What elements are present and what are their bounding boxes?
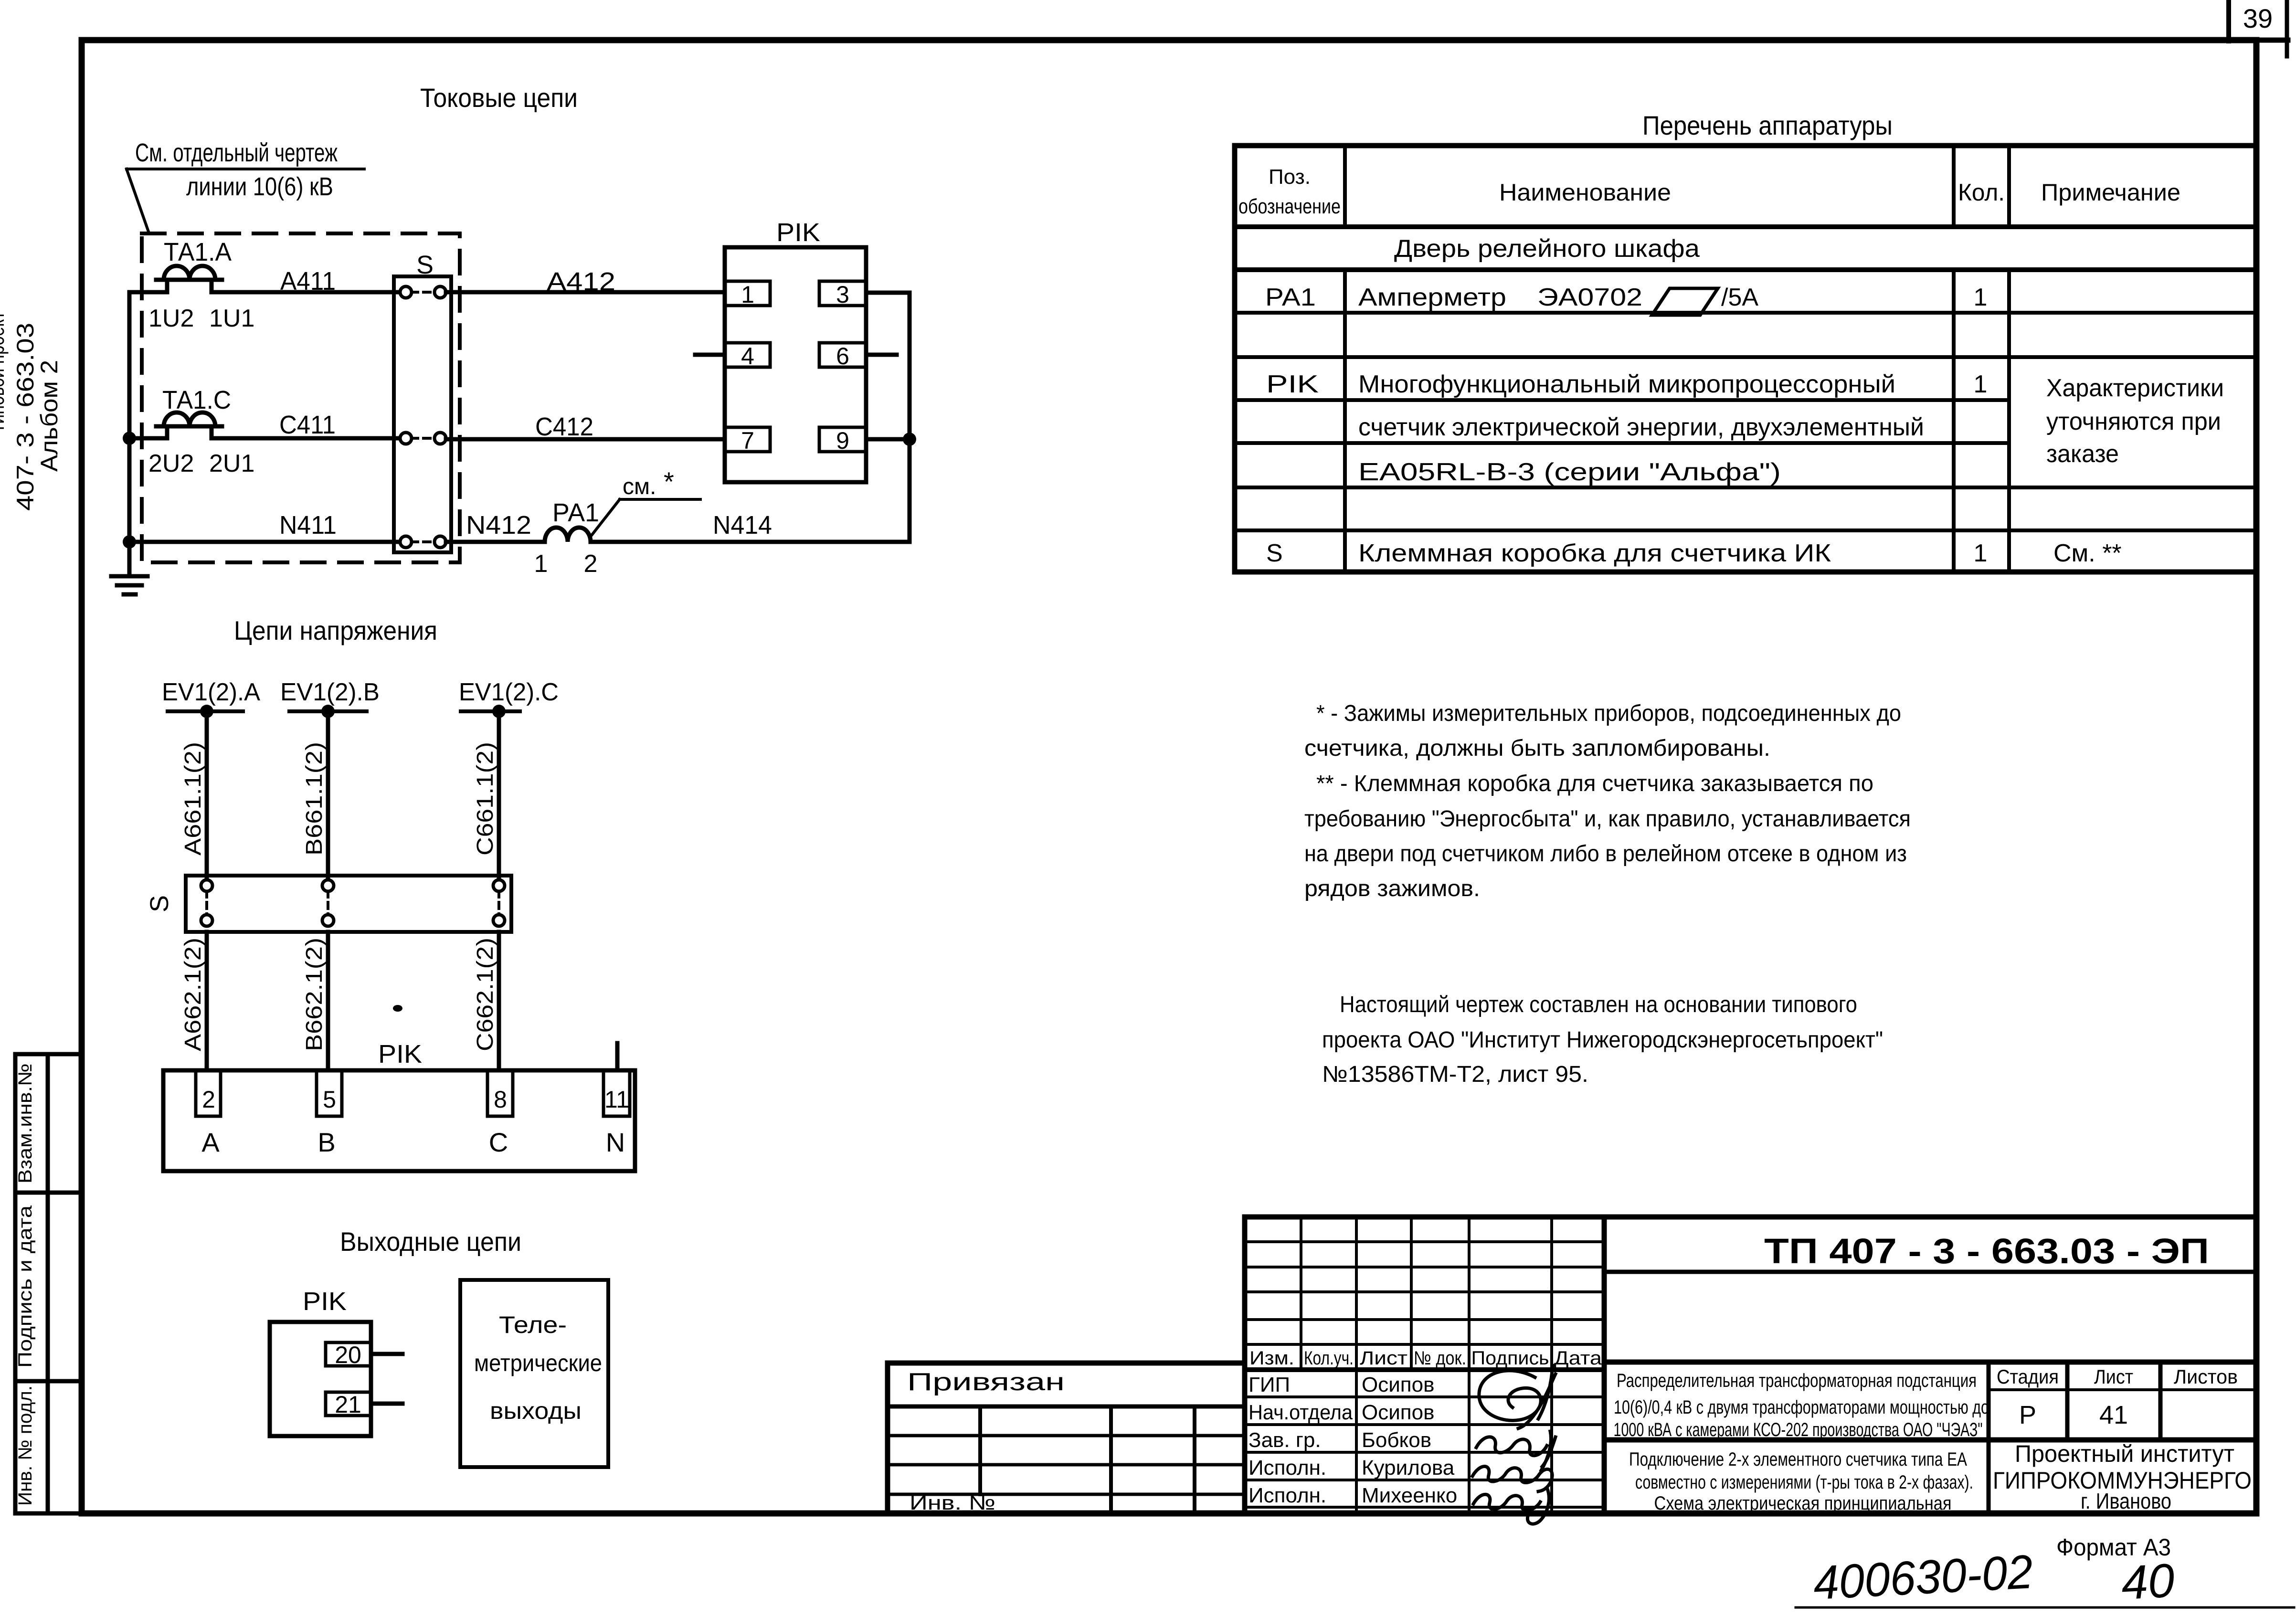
svg-text:ГИП: ГИП xyxy=(1249,1373,1290,1396)
meter PIK box (output circuits) xyxy=(270,1322,371,1436)
svg-text:11: 11 xyxy=(604,1086,629,1113)
svg-text:обозначение: обозначение xyxy=(1238,195,1341,218)
svg-text:EV1(2).A: EV1(2).A xyxy=(162,678,260,706)
revision table blank rows xyxy=(1245,1240,1604,1243)
svg-text:заказе: заказе xyxy=(2046,440,2119,468)
pin 20 stub wire xyxy=(371,1352,402,1356)
ammeter scale placeholder (parallelogram) xyxy=(1652,288,1718,315)
svg-text:С412: С412 xyxy=(535,412,593,441)
svg-text:Подпись: Подпись xyxy=(1471,1348,1549,1369)
svg-text:Настоящий чертеж составлен на: Настоящий чертеж составлен на основании … xyxy=(1340,992,1857,1017)
node: pin9/return bus junction xyxy=(903,433,916,446)
svg-text:7: 7 xyxy=(741,427,754,454)
svg-text:PIK: PIK xyxy=(378,1040,422,1068)
terminal box S (current circuits) xyxy=(394,276,451,552)
wire from pin 3 to return bus xyxy=(866,291,910,295)
svg-text:Примечание: Примечание xyxy=(2041,179,2180,206)
pin 6 stub wire xyxy=(866,353,897,357)
PIK pin 1 xyxy=(725,281,770,306)
PIK pin 4 xyxy=(725,343,770,367)
svg-text:Токовые цепи: Токовые цепи xyxy=(420,83,578,113)
svg-text:2U2: 2U2 xyxy=(148,450,194,477)
svg-text:Дверь релейного шкафа: Дверь релейного шкафа xyxy=(1394,235,1700,263)
svg-text:А411: А411 xyxy=(280,267,336,296)
svg-text:Стадия: Стадия xyxy=(1997,1365,2059,1388)
svg-text:9: 9 xyxy=(836,427,849,454)
wire A411 xyxy=(129,290,167,295)
svg-text:PIK: PIK xyxy=(776,218,820,247)
svg-text:1U1: 1U1 xyxy=(209,305,254,332)
svg-text:Цепи напряжения: Цепи напряжения xyxy=(234,615,437,645)
svg-text:линии 10(6) кВ: линии 10(6) кВ xyxy=(186,172,333,201)
wire C661.1(2) xyxy=(497,711,501,880)
svg-text:40: 40 xyxy=(2120,1554,2176,1610)
svg-text:EA05RL-B-3 (серии "Альфа"): EA05RL-B-3 (серии "Альфа") xyxy=(1358,458,1781,486)
title block outer lines xyxy=(1245,1215,2256,1220)
staff rows xyxy=(1245,1395,1604,1398)
svg-text:А662.1(2): А662.1(2) xyxy=(180,938,206,1051)
wire B662.1(2) xyxy=(326,932,330,1070)
S terminals row A: circles and dashed link xyxy=(400,286,446,298)
svg-text:Кол.уч.: Кол.уч. xyxy=(1304,1348,1354,1369)
svg-text:N: N xyxy=(606,1127,625,1157)
svg-text:Подключение 2-х элементного сч: Подключение 2-х элементного счетчика тип… xyxy=(1629,1449,1967,1470)
svg-text:А: А xyxy=(201,1127,220,1157)
svg-text:РА1: РА1 xyxy=(1265,284,1316,311)
svg-text:см.: см. xyxy=(623,474,656,499)
svg-text:ЭА0702: ЭА0702 xyxy=(1537,284,1642,311)
svg-text:1: 1 xyxy=(1974,539,1988,567)
svg-text:№ док.: № док. xyxy=(1414,1348,1466,1369)
PIK pin 8 xyxy=(487,1070,513,1116)
PIK pin 11 xyxy=(603,1070,630,1116)
wire C412 xyxy=(446,437,725,442)
svg-text:Курилова: Курилова xyxy=(1362,1456,1455,1480)
wire A662.1(2) xyxy=(205,932,209,1070)
svg-text:PIK: PIK xyxy=(1266,370,1319,398)
pin 11 stub wire xyxy=(615,1043,620,1070)
svg-text:6: 6 xyxy=(836,343,849,370)
wire N411 xyxy=(129,540,400,544)
svg-text:*: * xyxy=(664,466,674,497)
svg-text:Выходные цепи: Выходные цепи xyxy=(340,1226,521,1257)
meter PIK box (voltage circuits) xyxy=(163,1070,635,1171)
wire from pin 9 to return bus xyxy=(866,437,910,442)
svg-text:С662.1(2): С662.1(2) xyxy=(473,938,498,1051)
svg-text:Михеенко: Михеенко xyxy=(1362,1484,1457,1507)
svg-text:5: 5 xyxy=(323,1086,336,1113)
S voltage terminals column A xyxy=(201,880,212,926)
node B tick xyxy=(289,709,367,713)
svg-text:Поз.: Поз. xyxy=(1269,165,1311,189)
current transformer TA1.C xyxy=(156,412,222,438)
pin 21 stub wire xyxy=(371,1402,402,1406)
svg-text:S: S xyxy=(1266,539,1283,567)
svg-text:39: 39 xyxy=(2243,3,2273,33)
svg-text:В662.1(2): В662.1(2) xyxy=(302,938,327,1051)
svg-text:Типовой проект: Типовой проект xyxy=(0,312,9,433)
svg-text:уточняются при: уточняются при xyxy=(2046,408,2221,435)
svg-text:4: 4 xyxy=(741,343,754,370)
revision header bottom xyxy=(1245,1367,1604,1372)
stray ink dot xyxy=(393,1005,402,1012)
svg-text:Перечень аппаратуры: Перечень аппаратуры xyxy=(1642,110,1893,140)
signature scribble (Осипов) xyxy=(1479,1365,1555,1428)
svg-text:Осипов: Осипов xyxy=(1362,1401,1434,1424)
svg-text:S: S xyxy=(416,251,434,279)
revision table verticals (upper part) xyxy=(1300,1217,1302,1370)
svg-text:N414: N414 xyxy=(713,511,772,539)
svg-text:Подпись и дата: Подпись и дата xyxy=(15,1205,36,1368)
PIK pin 3 xyxy=(819,281,866,306)
svg-text:8: 8 xyxy=(494,1086,507,1113)
svg-text:PIK: PIK xyxy=(303,1287,347,1316)
svg-text:1000 кВА с камерами КСО-202 пр: 1000 кВА с камерами КСО-202 производства… xyxy=(1614,1419,1983,1440)
svg-text:Листов: Листов xyxy=(2174,1365,2238,1388)
svg-text:N412: N412 xyxy=(466,511,531,539)
wire A661.1(2) xyxy=(205,711,209,880)
svg-text:счетчика, должны быть запломби: счетчика, должны быть запломбированы. xyxy=(1304,736,1770,761)
svg-text:Привязан: Привязан xyxy=(907,1368,1065,1396)
svg-text:EV1(2).B: EV1(2).B xyxy=(280,678,380,706)
svg-text:проекта ОАО "Институт Нижегоро: проекта ОАО "Институт Нижегородскэнергос… xyxy=(1322,1027,1883,1053)
svg-text:Лист: Лист xyxy=(1360,1348,1407,1369)
svg-text:счетчик электрической энергии,: счетчик электрической энергии, двухэлеме… xyxy=(1358,413,1924,441)
svg-text:См. **: См. ** xyxy=(2053,539,2122,567)
svg-text:Характеристики: Характеристики xyxy=(2046,374,2224,402)
node C tick xyxy=(461,709,520,713)
ground symbol xyxy=(111,542,148,594)
node: bus to C-phase junction xyxy=(123,432,136,445)
PIK pin 20 xyxy=(326,1342,371,1366)
svg-text:N411: N411 xyxy=(279,511,337,539)
svg-text:Дата: Дата xyxy=(1554,1348,1602,1369)
svg-text:Исполн.: Исполн. xyxy=(1249,1484,1326,1507)
PIK pin 5 xyxy=(317,1070,342,1116)
PIK pin 2 xyxy=(196,1070,221,1116)
table grid xyxy=(1235,146,2256,572)
svg-text:20: 20 xyxy=(335,1342,361,1368)
svg-text:Инв. №: Инв. № xyxy=(910,1491,995,1514)
PIK pin 21 xyxy=(326,1392,371,1416)
svg-text:Наименование: Наименование xyxy=(1499,179,1671,206)
svg-text:А412: А412 xyxy=(547,267,615,296)
svg-text:Взам.инв.№: Взам.инв.№ xyxy=(15,1063,36,1184)
node A tick xyxy=(168,709,243,713)
svg-text:№13586ТМ-Т2, лист 95.: №13586ТМ-Т2, лист 95. xyxy=(1322,1062,1588,1087)
svg-text:1U2: 1U2 xyxy=(148,305,194,332)
svg-text:ТП 407 - 3 - 663.03 - ЭП: ТП 407 - 3 - 663.03 - ЭП xyxy=(1764,1231,2209,1271)
svg-text:2U1: 2U1 xyxy=(209,450,254,477)
PIK pin 9 xyxy=(819,427,866,452)
svg-text:Зав. гр.: Зав. гр. xyxy=(1249,1428,1321,1452)
svg-text:Альбом 2: Альбом 2 xyxy=(36,360,63,472)
svg-text:Изм.: Изм. xyxy=(1249,1348,1294,1369)
svg-text:Клеммная коробка для счетчика: Клеммная коробка для счетчика ИК xyxy=(1358,539,1831,567)
svg-text:EV1(2).C: EV1(2).C xyxy=(459,678,559,706)
ammeter PA1 coil xyxy=(545,528,591,542)
wire N414 xyxy=(591,540,910,544)
svg-text:метрические: метрические xyxy=(474,1350,602,1376)
svg-text:Амперметр: Амперметр xyxy=(1358,284,1506,311)
PIK pin 6 xyxy=(819,343,866,367)
signature scribble (Михеенко) xyxy=(1473,1488,1549,1524)
svg-text:Осипов: Осипов xyxy=(1362,1373,1434,1396)
svg-text:Многофункциональный микропроце: Многофункциональный микропроцессорный xyxy=(1358,370,1895,398)
svg-text:выходы: выходы xyxy=(490,1397,582,1424)
svg-text:21: 21 xyxy=(335,1391,361,1418)
svg-text:Исполн.: Исполн. xyxy=(1249,1456,1326,1480)
wire N412 xyxy=(446,540,545,544)
sheet number box (top right, "39") xyxy=(2229,0,2288,56)
S terminals row C xyxy=(400,433,446,444)
left phase bus wire (vertical) xyxy=(127,292,132,542)
dashed boundary box (10(6) kV line zone) xyxy=(142,233,460,562)
S voltage terminals column B xyxy=(322,880,334,926)
svg-text:Схема электрическая принципиал: Схема электрическая принципиальная xyxy=(1654,1493,1952,1514)
svg-text:1: 1 xyxy=(1974,370,1988,398)
line under drawing code xyxy=(1604,1270,2256,1274)
S voltage terminals column C xyxy=(493,880,505,926)
terminal box S (voltage circuits) xyxy=(186,876,511,932)
telemetry outputs box xyxy=(460,1280,608,1467)
svg-text:См. отдельный чертеж: См. отдельный чертеж xyxy=(135,138,338,167)
wire A412 xyxy=(446,290,725,295)
svg-text:407- 3 - 663.03: 407- 3 - 663.03 xyxy=(12,323,39,511)
svg-text:РА1: РА1 xyxy=(552,498,599,527)
svg-text:Кол.: Кол. xyxy=(1958,179,2005,206)
svg-text:3: 3 xyxy=(836,281,849,308)
svg-text:1: 1 xyxy=(741,281,754,308)
svg-text:г. Иваново: г. Иваново xyxy=(2081,1489,2171,1513)
svg-text:совместно с измерениями (т-ры: совместно с измерениями (т-ры тока в 2-х… xyxy=(1635,1472,1973,1493)
svg-text:С661.1(2): С661.1(2) xyxy=(473,742,498,856)
svg-text:С411: С411 xyxy=(279,411,336,439)
svg-text:Р: Р xyxy=(2019,1401,2036,1429)
note underline xyxy=(127,168,364,170)
handwriting underline xyxy=(1796,1606,2294,1609)
svg-text:2: 2 xyxy=(202,1086,215,1113)
wire B661.1(2) xyxy=(326,711,330,880)
signature scribble (Курилова) xyxy=(1472,1467,1552,1492)
svg-text:ТА1.А: ТА1.А xyxy=(164,238,232,266)
pin 4 stub wire xyxy=(695,353,725,357)
svg-text:ТА1.С: ТА1.С xyxy=(162,386,231,414)
svg-text:1: 1 xyxy=(1974,284,1988,311)
svg-text:Лист: Лист xyxy=(2094,1365,2133,1388)
svg-text:2: 2 xyxy=(584,550,598,578)
svg-text:С: С xyxy=(489,1127,508,1157)
note leader line xyxy=(127,169,149,233)
S terminals row N xyxy=(400,536,446,548)
svg-text:* - Зажимы измерительных прибо: * - Зажимы измерительных приборов, подсо… xyxy=(1316,701,1901,726)
binder block (Привязан) xyxy=(888,1361,1245,1366)
svg-text:/5А: /5А xyxy=(1721,284,1758,311)
svg-text:1: 1 xyxy=(534,550,548,578)
meter PIK box (current circuits) xyxy=(725,247,866,482)
wire C662.1(2) xyxy=(497,932,501,1070)
return bus wire (vertical) xyxy=(908,293,912,542)
svg-text:В: В xyxy=(317,1127,335,1157)
staff verticals xyxy=(1355,1370,1358,1513)
svg-text:на двери под счетчиком либо в: на двери под счетчиком либо в релейном о… xyxy=(1304,841,1907,867)
svg-text:Распределительная трансформато: Распределительная трансформаторная подст… xyxy=(1617,1370,1977,1391)
svg-text:А661.1(2): А661.1(2) xyxy=(180,742,206,856)
svg-text:41: 41 xyxy=(2099,1401,2128,1429)
svg-text:10(6)/0,4 кВ с двумя трансформ: 10(6)/0,4 кВ с двумя трансформаторами мо… xyxy=(1614,1397,1989,1418)
svg-text:В661.1(2): В661.1(2) xyxy=(302,742,327,856)
svg-text:Инв. № подл.: Инв. № подл. xyxy=(15,1385,36,1506)
svg-text:S: S xyxy=(145,895,174,912)
left edge stamp boxes xyxy=(15,1054,82,1513)
see-note leader (см. *) xyxy=(592,499,620,535)
svg-text:Бобков: Бобков xyxy=(1362,1428,1431,1452)
svg-text:Теле-: Теле- xyxy=(499,1311,567,1338)
node: bus to N junction xyxy=(123,535,136,549)
wire C411 xyxy=(129,436,167,441)
svg-text:Проектный институт: Проектный институт xyxy=(2015,1440,2234,1467)
svg-text:требованию "Энергосбыта" и, ка: требованию "Энергосбыта" и, как правило,… xyxy=(1304,806,1911,832)
svg-text:рядов зажимов.: рядов зажимов. xyxy=(1304,876,1480,901)
signature scribble (Бобков) xyxy=(1476,1431,1555,1470)
svg-text:** - Клеммная коробка для счет: ** - Клеммная коробка для счетчика заказ… xyxy=(1316,771,1873,796)
svg-text:Нач.отдела: Нач.отдела xyxy=(1249,1401,1353,1424)
right part: stage/sheet row xyxy=(1604,1360,2256,1365)
PIK pin 7 xyxy=(725,427,770,452)
current transformer TA1.A xyxy=(156,266,222,292)
